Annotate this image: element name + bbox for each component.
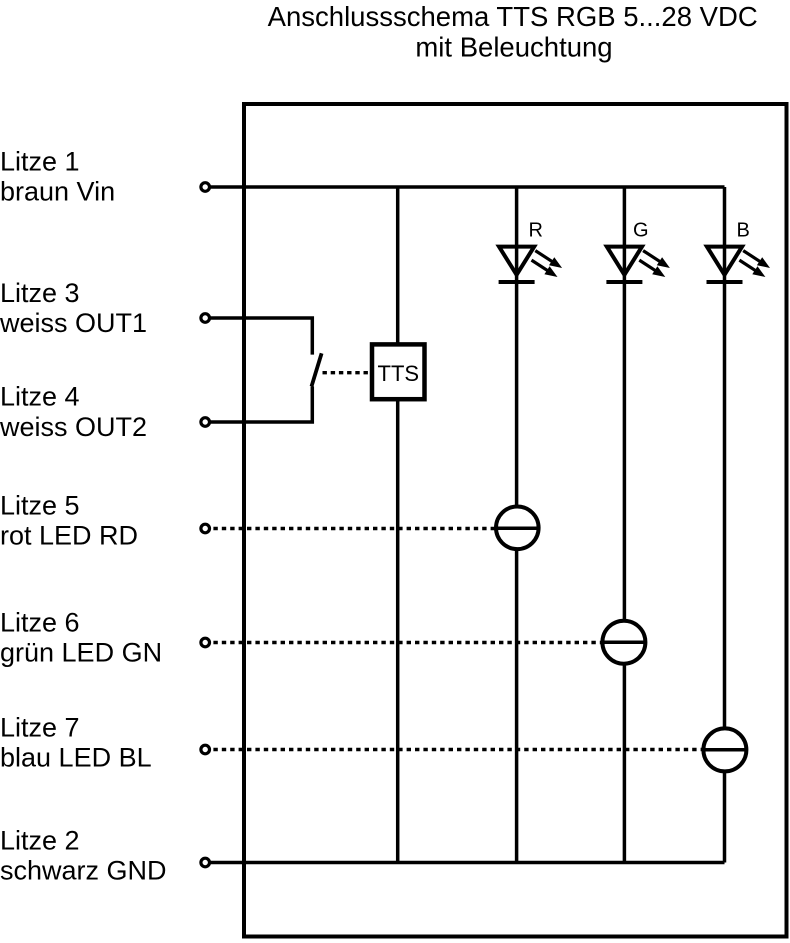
- label Litze 7 blau LED BL: [0, 712, 152, 772]
- svg-text:Litze 3: Litze 3: [0, 278, 80, 308]
- dashed wire LED GN (Litze 6): [205, 641, 602, 644]
- control element GN (circle on G line): [602, 621, 645, 664]
- wire LED G vertical bus: [623, 187, 627, 863]
- terminal Litze 6: [201, 638, 210, 647]
- svg-text:Litze 4: Litze 4: [0, 382, 80, 412]
- label Litze 2 schwarz GND: [0, 825, 167, 885]
- svg-text:braun Vin: braun Vin: [0, 177, 115, 207]
- enclosure box: [244, 104, 787, 937]
- wire LED R vertical bus: [515, 187, 519, 863]
- terminal Litze 4: [201, 418, 210, 427]
- wire LED B vertical bus: [723, 187, 727, 863]
- dashed wire LED BL (Litze 7): [205, 748, 702, 751]
- label Litze 1 braun Vin: [0, 147, 115, 207]
- svg-text:TTS: TTS: [378, 361, 420, 386]
- LED R: [499, 220, 562, 282]
- wire OUT1 (Litze 3 to switch top contact): [205, 318, 312, 355]
- svg-text:Litze 1: Litze 1: [0, 147, 80, 177]
- wire TTS vertical bus: [396, 187, 400, 863]
- svg-text:blau LED BL: blau LED BL: [0, 743, 152, 773]
- svg-text:B: B: [737, 220, 750, 242]
- LED B: [707, 220, 771, 282]
- svg-text:schwarz GND: schwarz GND: [0, 856, 167, 886]
- wire OUT2 (Litze 4 to switch bottom contact): [205, 386, 312, 422]
- svg-text:Litze 7: Litze 7: [0, 712, 80, 742]
- dashed wire LED RD (Litze 5): [205, 527, 495, 530]
- svg-text:Litze 5: Litze 5: [0, 490, 80, 520]
- svg-text:Litze 6: Litze 6: [0, 608, 80, 638]
- svg-text:grün LED GN: grün LED GN: [0, 638, 162, 668]
- label Litze 6 gruen LED GN: [0, 608, 162, 668]
- control element RD (circle on R line): [496, 507, 539, 550]
- svg-text:weiss OUT2: weiss OUT2: [0, 412, 147, 442]
- wire GND horizontal (Litze 2): [205, 861, 725, 865]
- svg-text:G: G: [633, 220, 649, 242]
- control element BL (circle on B line): [703, 728, 746, 771]
- terminal Litze 7: [201, 745, 210, 754]
- LED G: [606, 220, 670, 282]
- wire Vin horizontal (Litze 1 to B line): [205, 185, 725, 189]
- title: [268, 1, 758, 63]
- svg-text:R: R: [529, 220, 543, 242]
- svg-text:Litze 2: Litze 2: [0, 825, 80, 855]
- svg-text:mit Beleuchtung: mit Beleuchtung: [415, 32, 612, 63]
- svg-text:rot LED RD: rot LED RD: [0, 521, 138, 551]
- dashed control line switch to TTS: [323, 371, 371, 374]
- label Litze 4 weiss OUT2: [0, 382, 147, 442]
- label Litze 3 weiss OUT1: [0, 278, 147, 338]
- label Litze 5 rot LED RD: [0, 490, 138, 550]
- terminal Litze 2: [201, 858, 210, 867]
- svg-text:weiss OUT1: weiss OUT1: [0, 308, 147, 338]
- terminal Litze 3: [201, 314, 210, 323]
- TTS box U1: [372, 344, 425, 399]
- svg-text:Anschlussschema TTS RGB 5...28: Anschlussschema TTS RGB 5...28 VDC: [268, 1, 758, 32]
- terminal Litze 1: [201, 183, 210, 192]
- switch S blade: [312, 353, 322, 386]
- terminal Litze 5: [201, 524, 210, 533]
